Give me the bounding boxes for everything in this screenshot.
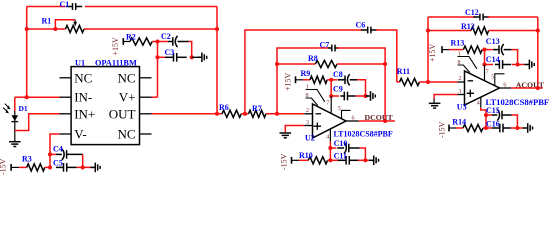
svg-text:C5: C5 <box>53 159 63 168</box>
U2 pin7 stub <box>330 96 332 113</box>
svg-text:R3: R3 <box>22 155 32 164</box>
wire: DCOUT <box>359 120 395 122</box>
op-amp U3 LT1028 <box>465 71 500 105</box>
wire: node to C3 <box>158 56 165 58</box>
wire: to ground C13/C14 <box>518 64 525 66</box>
resistor R10 <box>308 157 327 164</box>
wire: C10 right down <box>360 148 366 160</box>
op-amp U1 OPA111BM <box>71 67 139 145</box>
capacitor C9 <box>340 95 344 97</box>
wire: R6 to R7 <box>241 113 248 115</box>
svg-text:2: 2 <box>458 76 461 82</box>
svg-text:C16: C16 <box>486 119 500 128</box>
capacitor C1 <box>66 6 73 8</box>
wire: -15V to R10 <box>292 159 300 161</box>
svg-text:C11: C11 <box>334 151 347 160</box>
svg-text:8: 8 <box>306 93 309 99</box>
junction R12 right <box>536 28 540 32</box>
wire: C12 left vertical <box>427 17 429 82</box>
wire: pin3 to ground <box>434 95 458 99</box>
svg-text:C15: C15 <box>486 106 500 115</box>
wire: IN+ to D1 cathode <box>15 114 60 131</box>
resistor R9 <box>310 76 327 83</box>
svg-text:+15V: +15V <box>283 72 292 91</box>
wire: to C4 <box>50 153 56 155</box>
junction U2 feedback <box>275 112 279 116</box>
svg-text:7: 7 <box>326 101 329 107</box>
junction R9/C8 <box>329 78 333 82</box>
svg-text:R14: R14 <box>452 118 466 127</box>
junction R3/C5 <box>48 165 52 169</box>
wire: pin3 to ground <box>285 126 304 133</box>
wire: C1 top left <box>27 6 66 8</box>
junction R10/C11 <box>328 158 332 162</box>
wire: R1 row right <box>84 28 217 30</box>
capacitor C4 <box>62 149 64 160</box>
junction R2/C2 <box>155 39 159 43</box>
svg-text:5: 5 <box>491 75 494 81</box>
junction DCOUT <box>383 119 387 123</box>
U2 pin2 stub <box>304 113 312 115</box>
ground U2 pin3 <box>280 132 292 134</box>
svg-text:C9: C9 <box>333 85 343 94</box>
svg-text:4: 4 <box>326 134 329 140</box>
svg-text:5: 5 <box>338 106 341 112</box>
svg-text:C4: C4 <box>53 145 63 154</box>
U3 pin4 stub <box>480 97 482 108</box>
wire: R12 right <box>489 30 538 32</box>
wire: C6 to R11 <box>397 81 400 83</box>
wire: IN- wire <box>27 96 60 98</box>
wire: pin4 jog down <box>481 108 486 128</box>
junction OUT node <box>215 112 219 116</box>
junction pin7 <box>329 94 333 98</box>
svg-text:C8: C8 <box>333 70 343 79</box>
junction C10 branch <box>328 146 332 150</box>
ground C10/C11 <box>369 159 374 161</box>
U3 pin5 stub <box>495 74 505 86</box>
capacitor C2 <box>168 41 173 43</box>
wire: R13 to node <box>482 49 493 51</box>
resistor R7 <box>249 110 267 117</box>
svg-text:R7: R7 <box>252 104 262 113</box>
svg-text:3: 3 <box>306 120 309 126</box>
wire: C8 right down <box>357 80 366 96</box>
svg-text:LT1028CS8#PBF: LT1028CS8#PBF <box>334 130 393 139</box>
wire: C5 to ground <box>77 166 94 168</box>
svg-text:C12: C12 <box>465 8 479 17</box>
wire: +15V to R13 <box>442 49 449 51</box>
junction C8/C9 <box>363 94 367 98</box>
capacitor C13 <box>493 49 499 51</box>
wire: to R10 <box>299 159 308 161</box>
svg-text:+15V: +15V <box>428 43 437 62</box>
U3 pin8 stub <box>458 65 470 73</box>
U2 pin3 stub <box>304 125 312 127</box>
ground U3 pin3 <box>429 102 441 104</box>
capacitor C15 <box>497 109 499 120</box>
wire: to C15 <box>486 114 492 116</box>
wire: C1 top right <box>85 6 217 8</box>
wire: R9 to node <box>327 79 337 81</box>
D1 light arrows <box>3 104 9 113</box>
svg-text:R9: R9 <box>301 69 311 78</box>
wire: R14 to node <box>483 127 486 129</box>
capacitor C5 <box>56 166 64 168</box>
capacitor C14 <box>495 64 500 66</box>
wire: to R13 <box>449 49 463 51</box>
wire: V+ vertical <box>157 42 159 98</box>
wire: +15V to R2 <box>123 41 130 43</box>
svg-text:3: 3 <box>458 89 461 95</box>
svg-text:2: 2 <box>306 108 309 114</box>
wire: to C9 <box>331 95 339 97</box>
ground C15/C16 <box>523 127 528 129</box>
junction pin7 U3 <box>482 62 486 66</box>
U3 pin3 ground stem <box>433 99 435 104</box>
junction R13/C13 <box>482 48 486 52</box>
svg-text:C10: C10 <box>334 139 348 148</box>
ground C13/C14 <box>524 64 529 66</box>
photodiode D1 <box>14 111 16 142</box>
junction C6 tap <box>243 112 247 116</box>
junction C15 branch <box>484 113 488 117</box>
resistor R6 <box>222 110 241 117</box>
wire: +15V to R9 <box>296 79 304 81</box>
svg-text:IN+: IN+ <box>74 106 95 121</box>
wire: C12 top left <box>428 16 475 18</box>
wire: C4 right down <box>82 154 84 167</box>
wire: C11 to ground <box>358 159 369 161</box>
wire: OUT to R6 <box>152 113 223 115</box>
svg-text:OPA111BM: OPA111BM <box>95 58 137 67</box>
wire: pin4 down <box>329 141 331 160</box>
wire: C9 to join <box>355 95 365 97</box>
wire: C7 right / feedback vertical <box>337 48 385 121</box>
svg-text:8: 8 <box>458 60 461 66</box>
ground R3/C4/C5 <box>90 166 95 168</box>
svg-text:1: 1 <box>306 85 309 91</box>
junction C10/C11 <box>363 158 367 162</box>
wire: to R9 <box>303 79 310 81</box>
U2 pin5 stub <box>342 110 351 118</box>
wire: C12 top right <box>488 16 538 18</box>
wire: R7 to U2 <box>266 113 304 115</box>
svg-text:R6: R6 <box>219 103 229 112</box>
svg-text:+15V: +15V <box>111 37 120 56</box>
svg-text:4: 4 <box>477 101 480 107</box>
junction R1 left <box>25 27 29 31</box>
wire: C13 right down <box>511 50 517 65</box>
junction C15/C16 <box>515 126 519 130</box>
junction R12 left <box>426 28 430 32</box>
wire: C7 left <box>277 48 330 114</box>
ground D1 <box>9 141 21 143</box>
junction R1 right <box>215 27 219 31</box>
svg-text:R13: R13 <box>451 39 465 48</box>
wire: D1 anode <box>14 97 16 111</box>
wire: to C9 row <box>330 80 332 96</box>
svg-text:C3: C3 <box>165 48 175 57</box>
junction C4 branch <box>48 152 52 156</box>
capacitor C16 <box>492 127 500 129</box>
svg-text:V+: V+ <box>119 90 136 105</box>
svg-text:R10: R10 <box>299 151 313 160</box>
resistor R11 <box>400 78 420 85</box>
svg-text:R8: R8 <box>308 54 318 63</box>
ground C2/C3 <box>197 56 202 58</box>
wire: C2 right down <box>189 42 192 58</box>
wire: C12 right vertical <box>537 17 539 88</box>
junction R8 left <box>275 62 279 66</box>
svg-text:U1: U1 <box>75 58 85 67</box>
U3 pin7 stub <box>484 65 486 81</box>
svg-text:NC: NC <box>74 70 92 85</box>
svg-text:V-: V- <box>74 127 87 142</box>
R1 wiper arrow <box>74 20 76 25</box>
ground C8/C9 <box>366 95 371 97</box>
junction R14/C16 <box>484 126 488 130</box>
svg-text:R11: R11 <box>397 67 410 76</box>
svg-text:NC: NC <box>117 70 135 85</box>
wire: C14 to join <box>512 64 518 66</box>
U2 pin1 stub <box>306 90 325 102</box>
svg-text:R12: R12 <box>461 22 475 31</box>
resistor R3 <box>27 164 45 171</box>
svg-text:R2: R2 <box>126 33 136 42</box>
wire: R8 left <box>277 63 315 65</box>
svg-text:OUT: OUT <box>109 106 136 121</box>
junction R8/C7 right <box>383 62 387 66</box>
wire: C15 right down <box>512 115 518 128</box>
junction C13/C14 <box>516 62 520 66</box>
wire: R8 right <box>337 63 385 65</box>
svg-text:IN-: IN- <box>74 90 92 105</box>
svg-text:D1: D1 <box>19 104 28 113</box>
junction R1 wiper <box>53 27 57 31</box>
power port +15V stage2 <box>295 76 297 83</box>
op-amp U2 LT1028 <box>313 104 347 138</box>
U2 pin6 stub <box>346 120 359 122</box>
junction C3 right <box>190 55 194 59</box>
power port -15V stage1 <box>10 164 12 171</box>
power port -15V stage2 <box>291 157 293 164</box>
resistor R13 <box>463 46 482 53</box>
wire: R11 to U3 <box>420 81 458 83</box>
wire: V+ pin <box>152 96 158 98</box>
svg-text:C14: C14 <box>486 55 500 64</box>
U3 pin3 stub <box>458 94 465 96</box>
svg-text:1: 1 <box>458 52 461 58</box>
wire: C6 right down <box>376 30 397 82</box>
wire: R1 wiper loop <box>55 20 75 29</box>
resistor R14 <box>463 124 483 131</box>
wire: -15V to R3 <box>11 166 19 168</box>
wire: node to C16 <box>486 127 492 129</box>
U2 pin8 stub <box>306 98 318 106</box>
svg-text:-15V: -15V <box>437 121 446 138</box>
svg-text:-15V: -15V <box>280 153 289 170</box>
wire: R12 left <box>428 30 471 32</box>
svg-text:C2: C2 <box>161 32 171 41</box>
wire: left feedback vertical <box>26 7 28 98</box>
capacitor C10 <box>344 142 346 153</box>
wire: to C14 <box>485 64 494 66</box>
svg-text:6: 6 <box>352 116 355 122</box>
wire: to R3 <box>19 166 27 168</box>
svg-text:C1: C1 <box>60 0 70 9</box>
capacitor C12 <box>473 16 480 18</box>
ground C2/C3 stem <box>192 56 202 58</box>
capacitor C8 <box>338 79 345 81</box>
junction ACOUT <box>536 86 540 90</box>
capacitor C11 <box>336 159 346 161</box>
wire: R3 to node <box>45 166 50 168</box>
junction C3 left <box>155 55 159 59</box>
svg-text:U3: U3 <box>457 103 467 112</box>
power port -15V stage3 <box>448 125 450 132</box>
wire: C16 to ground <box>511 127 523 129</box>
wire: R10 to node <box>328 159 331 161</box>
svg-text:NC: NC <box>117 127 135 142</box>
svg-text:6: 6 <box>503 83 506 89</box>
power port +15V stage1 <box>122 38 124 45</box>
power port +15V stage3 <box>441 46 443 53</box>
capacitor C7 <box>328 47 332 49</box>
svg-text:C7: C7 <box>320 41 330 50</box>
svg-text:C6: C6 <box>356 21 366 30</box>
wire: node to C11 <box>330 159 337 161</box>
wire: R2 to node/C2 <box>152 41 168 43</box>
U3 pin6 stub <box>500 87 512 89</box>
resistor R2 <box>130 38 152 45</box>
wire: to C14 row <box>484 50 486 65</box>
wire: C6 left <box>245 30 363 114</box>
svg-text:C13: C13 <box>486 37 500 46</box>
svg-text:U2: U2 <box>305 134 315 143</box>
U2 pin4 stub <box>329 129 331 142</box>
junction C12 left vertical <box>426 80 430 84</box>
wire: ACOUT <box>511 87 543 89</box>
svg-text:-15V: -15V <box>0 158 8 175</box>
resistor R8 <box>315 60 337 67</box>
junction IN- node <box>25 95 29 99</box>
wire: IN- to D1 <box>15 96 27 98</box>
capacitor C6 <box>361 29 368 31</box>
svg-text:7: 7 <box>486 69 489 75</box>
wire: right feedback vertical <box>216 7 218 114</box>
wire: R1 row left <box>27 28 66 30</box>
resistor R1 <box>66 25 85 32</box>
resistor R12 <box>471 27 489 34</box>
capacitor C3 <box>165 56 174 58</box>
wire: -15V to R14 <box>449 127 456 129</box>
wire: to C10 <box>330 147 336 149</box>
junction C5 right <box>81 165 85 169</box>
U3 pin1 stub <box>458 57 477 69</box>
U3 pin2 stub <box>458 81 465 83</box>
wire: to R14 <box>456 127 463 129</box>
svg-text:R1: R1 <box>42 17 52 26</box>
wire: V- down <box>50 134 60 167</box>
